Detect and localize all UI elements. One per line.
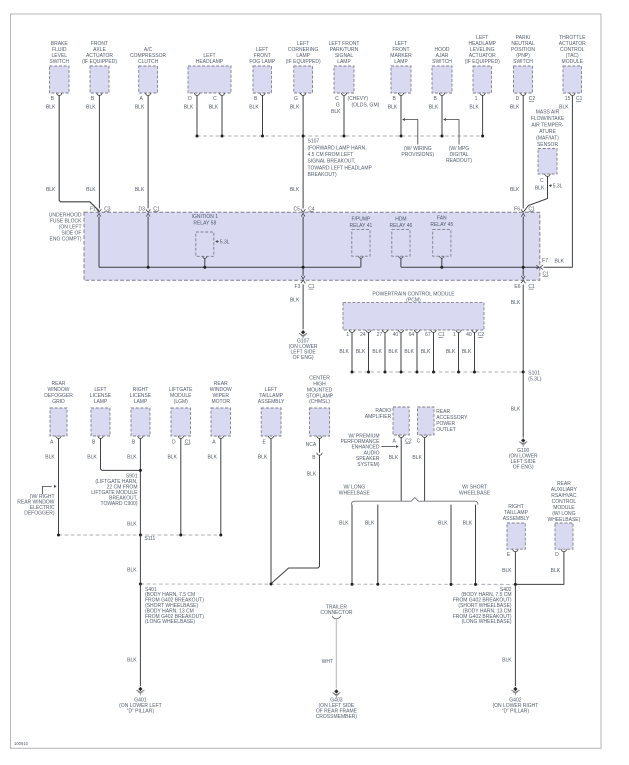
splice label S401 [145, 587, 204, 625]
component LEFT LICENSE LAMP [90, 387, 112, 445]
svg-text:BLK: BLK [372, 349, 382, 355]
label W/ SHORT WHEELBASE [459, 485, 491, 497]
svg-text:BLK: BLK [511, 300, 521, 306]
wire right license lamp through S901 to S111 [139, 438, 141, 535]
component FRONT AXLE ACTUATOR [82, 41, 117, 102]
svg-text:BLK: BLK [127, 522, 137, 528]
wire S101 to ground G100 [511, 372, 523, 438]
wire hood ajar switch to S107 [441, 95, 443, 136]
svg-text:S111: S111 [144, 536, 155, 542]
svg-text:BLK: BLK [421, 349, 431, 355]
svg-text:BREAKOUT): BREAKOUT) [308, 172, 338, 178]
svg-text:40: 40 [466, 332, 472, 338]
svg-text:LAMP: LAMP [134, 399, 148, 405]
component LEFT FRONT MARKER LAMP [390, 41, 412, 102]
fuse block pin F3/C1 (bottom) [295, 276, 315, 290]
wire F3 to ground G107 [290, 284, 303, 329]
svg-text:BLK: BLK [209, 104, 219, 110]
note (W/ MPG DIGITAL READOUT) with arrow to hood ajar wire [443, 118, 472, 164]
splice S901 [91, 469, 142, 507]
svg-text:BLK: BLK [502, 568, 512, 574]
svg-text:67: 67 [425, 332, 431, 338]
wire left license lamp to S901 [101, 438, 141, 470]
ground G402 [492, 687, 538, 715]
component RADIO AMPLIFIER [365, 407, 412, 445]
wire brake fluid level switch to fuse block F1 [59, 95, 99, 210]
svg-text:DEFOGGER): DEFOGGER) [24, 511, 55, 517]
svg-text:27: 27 [377, 332, 383, 338]
svg-text:F1: F1 [90, 206, 96, 212]
svg-text:15: 15 [565, 96, 571, 102]
wire E6 to splice S101 [511, 284, 523, 372]
svg-text:SWITCH: SWITCH [49, 59, 69, 65]
svg-text:BLK: BLK [86, 187, 96, 193]
park/turn pin labels C (CHEVY) / G (OLDS, GM) [331, 96, 380, 115]
svg-text:BLK: BLK [462, 349, 472, 355]
svg-text:40: 40 [393, 332, 399, 338]
svg-text:BLK: BLK [559, 104, 569, 110]
svg-text:RELAY 58: RELAY 58 [193, 221, 216, 227]
svg-text:BLK: BLK [127, 657, 137, 663]
svg-text:BLK: BLK [365, 521, 375, 527]
svg-text:SENSOR: SENSOR [537, 142, 559, 148]
note (W/ WIRING PROVISIONS) with arrow to marker lamp wire [401, 118, 434, 158]
svg-text:BLK: BLK [429, 104, 439, 110]
svg-text:NCA: NCA [306, 442, 317, 448]
svg-text:BLK: BLK [290, 298, 300, 304]
svg-text:(IF EQUIPPED): (IF EQUIPPED) [286, 59, 321, 65]
svg-text:RELAY 45: RELAY 45 [430, 222, 453, 228]
svg-text:BLK: BLK [46, 187, 56, 193]
component PARK/NEUTRAL POSITION SWITCH [511, 35, 535, 95]
relay IGNITION 1 RELAY 58 [192, 214, 219, 267]
svg-text:MODULE: MODULE [562, 59, 584, 65]
svg-text:FLOW/INTAKE: FLOW/INTAKE [531, 116, 565, 122]
svg-text:BLK: BLK [388, 349, 398, 355]
wire S402 to ground G402 [502, 584, 515, 686]
svg-text:F7: F7 [542, 258, 548, 264]
svg-text:LAMP: LAMP [94, 399, 108, 405]
svg-text:BLK: BLK [510, 187, 520, 193]
wire S401 to ground G401 [127, 584, 140, 686]
svg-text:(LONG WHEELBASE): (LONG WHEELBASE) [145, 619, 195, 625]
diagram id 100910 [14, 741, 29, 746]
wire left headlamp C to S107 [221, 95, 223, 136]
svg-text:BLK: BLK [555, 259, 565, 265]
svg-text:TOWARD C900): TOWARD C900) [101, 501, 138, 507]
ground G401 [119, 687, 162, 715]
wire PNP switch to fuse block F6 [522, 95, 524, 208]
svg-text:SYSTEM): SYSTEM) [357, 462, 380, 468]
svg-text:(IF EQUIPPED): (IF EQUIPPED) [465, 59, 500, 65]
wire front axle actuator to F1 [98, 95, 100, 208]
svg-text:BLK: BLK [356, 349, 366, 355]
svg-text:BLK: BLK [46, 104, 56, 110]
wire S111 to splice S401 [127, 535, 140, 584]
svg-text:24: 24 [360, 332, 366, 338]
svg-text:BLK: BLK [127, 455, 137, 461]
BLK labels bottom row [45, 455, 268, 461]
svg-text:IGNITION 1: IGNITION 1 [192, 214, 219, 220]
wire short wheelbase wire 1 to ground bus [438, 505, 451, 585]
wire rear window defogger to S111 [58, 438, 60, 535]
splice S107 bus (dashed) [196, 135, 485, 138]
component CENTER HIGH MOUNTED STOPLAMP [306, 376, 334, 439]
wire liftgate module to S111 [180, 438, 182, 535]
svg-text:FOG LAMP: FOG LAMP [249, 59, 276, 65]
note 5.3L arrow at ignition relay [215, 240, 230, 246]
svg-text:D: D [516, 96, 520, 102]
svg-text:BLK: BLK [502, 657, 512, 663]
TAC pins 15 / C1 [565, 96, 583, 102]
PNP pins D / C2 [516, 96, 536, 102]
svg-text:1: 1 [346, 332, 349, 338]
svg-text:1: 1 [453, 332, 456, 338]
svg-text:BLK: BLK [438, 521, 448, 527]
wire A/C compressor clutch to D3 [147, 95, 149, 208]
fuse block internal wire C5 to F3 [302, 217, 304, 276]
note (W/ RIGHT REAR WINDOW ELECTRIC DEFOGGER) [17, 485, 56, 517]
wire left cornering lamp through S107 to C5 [302, 95, 304, 208]
fuse block pin D3/C1 [138, 206, 159, 216]
svg-text:BLK: BLK [208, 455, 218, 461]
component RIGHT TAILLAMP ASSEMBLY [502, 504, 530, 574]
svg-text:BLK: BLK [290, 104, 300, 110]
svg-text:(LGM): (LGM) [174, 399, 189, 405]
fuse block pin E6/C1 (bottom) [514, 276, 535, 290]
component A/C COMPRESSOR CLUTCH [130, 47, 167, 102]
svg-text:100910: 100910 [14, 741, 29, 746]
component LEFT HEADLAMP [188, 53, 231, 102]
svg-text:WHEELBASE: WHEELBASE [459, 491, 491, 497]
splice bus S401-S402 (dashed) [139, 583, 517, 586]
svg-text:(CHEVY): (CHEVY) [348, 96, 369, 102]
svg-text:5.3L: 5.3L [553, 184, 563, 190]
wire CHMSL joins left taillamp wire [272, 455, 320, 583]
svg-text:“D” PILLAR): “D” PILLAR) [502, 709, 530, 715]
wire long wheelbase wire 1 to ground bus [339, 505, 352, 585]
svg-text:OF ENG): OF ENG) [513, 464, 534, 470]
svg-text:BLK: BLK [86, 104, 96, 110]
BLK label S901 wire [127, 522, 137, 528]
relay FAN RELAY 45 [430, 215, 453, 267]
svg-text:(LONG WHEELBASE): (LONG WHEELBASE) [462, 619, 512, 625]
wire left front park/turn signal lamp to S107 [343, 95, 345, 136]
svg-text:BLK: BLK [463, 521, 473, 527]
svg-text:BLK: BLK [127, 568, 137, 574]
fuse block internal ground bus (right segment) to F7 [401, 266, 539, 269]
svg-text:E6: E6 [514, 284, 520, 290]
svg-text:WHEELBASE): WHEELBASE) [548, 517, 581, 523]
svg-text:AIR TEMPER-: AIR TEMPER- [531, 123, 563, 129]
svg-text:OF ENG): OF ENG) [293, 355, 314, 361]
svg-text:CLUTCH: CLUTCH [138, 59, 159, 65]
fuse block internal wire from D3 [147, 217, 149, 268]
svg-text:BLK: BLK [290, 187, 300, 193]
fuse block internal ground bus (left segment) [99, 266, 361, 269]
svg-text:BLK: BLK [307, 472, 317, 478]
svg-text:BLK: BLK [535, 185, 545, 191]
svg-text:(MAF/IAT): (MAF/IAT) [536, 136, 559, 142]
label W/ LONG WHEELBASE [339, 485, 371, 497]
svg-text:BLK: BLK [551, 568, 561, 574]
wire (WHT) trailer connector to ground G403 [322, 619, 337, 689]
PCM ground wires to S101 [339, 332, 474, 372]
svg-text:SWITCH: SWITCH [432, 59, 452, 65]
CHMSL inline connector (NCA / B) [306, 438, 322, 477]
svg-text:READOUT): READOUT) [446, 158, 472, 164]
wire short wheelbase wire 2 to ground bus [463, 505, 476, 585]
svg-text:BLK: BLK [331, 109, 341, 115]
svg-text:GRID: GRID [52, 399, 65, 405]
svg-text:BLK: BLK [45, 455, 55, 461]
svg-text:FAN: FAN [437, 215, 447, 221]
svg-text:C: C [335, 96, 339, 102]
svg-text:C: C [540, 178, 544, 184]
svg-text:RELAY 41: RELAY 41 [349, 223, 372, 229]
svg-text:F6: F6 [514, 206, 520, 212]
wire radio amplifier to wheelbase brace [400, 437, 402, 500]
svg-text:HDM: HDM [395, 217, 406, 223]
svg-text:D3: D3 [138, 206, 145, 212]
svg-text:D: D [555, 552, 559, 558]
svg-text:D: D [172, 440, 176, 446]
note 5.3L arrow at MAF wire [549, 184, 563, 190]
BLK label MAF wire [535, 185, 545, 191]
svg-text:WHEELBASE: WHEELBASE [339, 491, 371, 497]
splice label S402 [453, 587, 512, 625]
component LIFTGATE MODULE [169, 387, 193, 445]
fuse block pin F1/C3 [90, 206, 111, 216]
module POWERTRAIN CONTROL MODULE (PCM) [343, 292, 484, 339]
note W/ PREMIUM ... SPEAKER SYSTEM with arrow [341, 433, 399, 468]
wire rear window wiper motor to S111 [220, 438, 222, 535]
BLK wire labels (lower, before fuse block) [46, 187, 520, 193]
component LEFT HEADLAMP LEVELING ACTUATOR [465, 35, 500, 102]
wire MAF sensor to fuse block F6 [525, 176, 548, 210]
component LEFT FRONT FOG LAMP [249, 47, 276, 102]
wire right taillamp to S402 [514, 552, 516, 585]
svg-text:5.3L: 5.3L [220, 240, 230, 246]
svg-text:AMPLIFIER: AMPLIFIER [365, 414, 392, 420]
svg-text:(OLDS, GM): (OLDS, GM) [352, 103, 380, 109]
label S111 [144, 536, 155, 542]
BLK labels amplifier and outlet [389, 455, 423, 461]
svg-text:BLK: BLK [135, 104, 145, 110]
wire left front marker lamp to S107 [400, 95, 402, 136]
svg-text:ATURE: ATURE [539, 129, 556, 135]
component THROTTLE ACTUATOR CONTROL MODULE [559, 35, 586, 95]
svg-text:BLK: BLK [469, 104, 479, 110]
svg-text:MASS AIR: MASS AIR [536, 110, 560, 116]
svg-text:HEADLAMP: HEADLAMP [196, 59, 224, 65]
svg-text:BLK: BLK [87, 455, 97, 461]
svg-text:S101: S101 [528, 370, 540, 376]
svg-text:BLK: BLK [249, 104, 259, 110]
svg-text:CROSSMEMBER): CROSSMEMBER) [316, 714, 358, 720]
component REAR WINDOW WIPER MOTOR [210, 381, 232, 445]
svg-text:C: C [213, 96, 217, 102]
splice S111 bus (dashed) [57, 534, 222, 537]
wire long wheelbase wire 2 to ground bus [365, 505, 378, 585]
svg-text:BLK: BLK [412, 455, 422, 461]
svg-text:PROVISIONS): PROVISIONS) [401, 152, 434, 158]
svg-text:WHT: WHT [322, 659, 333, 665]
svg-text:BLK: BLK [446, 349, 456, 355]
svg-text:LAMP: LAMP [337, 59, 351, 65]
wire left headlamp D to splice S107 [196, 95, 198, 136]
svg-text:SWITCH: SWITCH [513, 59, 533, 65]
LGM pin C1 [185, 440, 192, 446]
component LEFT FRONT PARK/TURN SIGNAL LAMP [329, 41, 360, 95]
component TRAILER CONNECTOR [320, 604, 353, 618]
svg-text:(IF EQUIPPED): (IF EQUIPPED) [82, 59, 117, 65]
component MASS AIR FLOW / INTAKE AIR TEMPERATURE (MAF/IAT) SENSOR [531, 110, 565, 184]
label S101 (5.3L) [528, 370, 541, 382]
svg-text:BLK: BLK [184, 104, 194, 110]
component REAR ACCESSORY POWER OUTLET [417, 407, 468, 445]
component REAR WINDOW DEFOGGER GRID [44, 381, 73, 445]
BLK wire labels top row [46, 104, 569, 110]
component REAR AUXILIARY RSA/HVAC CONTROL MODULE [548, 481, 581, 574]
svg-text:CONNECTOR: CONNECTOR [320, 610, 353, 616]
wire TAC module to fuse block F7 [544, 95, 573, 267]
svg-text:BLK: BLK [339, 521, 349, 527]
svg-text:BLK: BLK [168, 455, 178, 461]
svg-text:G: G [294, 96, 298, 102]
svg-text:TOWARD LEFT HEADLAMP: TOWARD LEFT HEADLAMP [308, 165, 373, 171]
svg-text:LAMP: LAMP [394, 59, 408, 65]
svg-text:BLK: BLK [389, 455, 399, 461]
component RIGHT LICENSE LAMP [130, 387, 152, 445]
svg-text:BLK: BLK [135, 187, 145, 193]
label S107 breakout note [308, 139, 373, 179]
ground G403 [316, 689, 358, 720]
svg-text:SIGNAL BREAKOUT,: SIGNAL BREAKOUT, [308, 159, 356, 165]
wire RSA/HVAC module to S402 [516, 552, 564, 585]
svg-text:BLK: BLK [339, 349, 349, 355]
wheelbase option brace [351, 498, 478, 505]
svg-text:4.5 CM FROM LEFT: 4.5 CM FROM LEFT [308, 152, 354, 158]
fuse block internal wire F6 to E6 [522, 217, 524, 276]
svg-text:MOTOR: MOTOR [211, 399, 230, 405]
relay F/PUMP RELAY 41 [349, 217, 372, 268]
fuse block pin F7/C1 (right edge) [536, 258, 564, 278]
splice S101 bus (dashed) [351, 371, 525, 374]
fuse block pin C5/C4 [293, 206, 314, 216]
relay HDM RELAY 46 [389, 217, 412, 268]
component BRAKE FLUID LEVEL SWITCH [49, 41, 69, 102]
svg-text:ASSEMBLY: ASSEMBLY [503, 516, 530, 522]
component LEFT TAILLAMP ASSEMBLY [258, 387, 285, 445]
component LEFT CORNERING LAMP [286, 41, 321, 102]
svg-text:F3: F3 [295, 284, 301, 290]
svg-text:1: 1 [475, 96, 478, 102]
svg-text:S107: S107 [308, 139, 320, 145]
wire left front fog lamp to S107 [262, 95, 264, 136]
svg-text:BLK: BLK [510, 104, 520, 110]
svg-text:D: D [188, 96, 192, 102]
svg-text:C: C [417, 439, 421, 445]
svg-text:(5.3L): (5.3L) [528, 377, 541, 383]
svg-text:64: 64 [409, 332, 415, 338]
svg-text:BLK: BLK [404, 349, 414, 355]
svg-text:G: G [336, 103, 340, 109]
wire rear accessory power outlet to brace [424, 437, 426, 500]
svg-text:(CHMSL): (CHMSL) [309, 399, 330, 405]
UNDERHOOD FUSE BLOCK (dashed module box) [49, 212, 540, 280]
ground G100 [509, 438, 538, 470]
svg-text:F/PUMP: F/PUMP [351, 217, 371, 223]
svg-text:OUTLET: OUTLET [436, 427, 456, 433]
svg-text:(FORWARD LAMP HARN,: (FORWARD LAMP HARN, [308, 145, 367, 151]
svg-text:“D” PILLAR): “D” PILLAR) [127, 709, 155, 715]
svg-text:BLK: BLK [388, 104, 398, 110]
fuse block pin F6/C1 [514, 206, 535, 216]
svg-text:BLK: BLK [511, 406, 521, 412]
ground G107 [289, 330, 318, 361]
wire left headlamp leveling actuator to S107 [482, 95, 484, 136]
svg-text:BLK: BLK [258, 455, 268, 461]
svg-text:C5: C5 [293, 206, 300, 212]
svg-text:ASSEMBLY: ASSEMBLY [258, 399, 285, 405]
svg-text:ENG COMPT): ENG COMPT) [50, 237, 82, 243]
fuse block internal wire from F1 [98, 217, 100, 268]
wire left taillamp assembly to S401 bus [270, 438, 272, 583]
svg-text:RELAY 46: RELAY 46 [389, 223, 412, 229]
component HOOD AJAR SWITCH [432, 47, 452, 102]
